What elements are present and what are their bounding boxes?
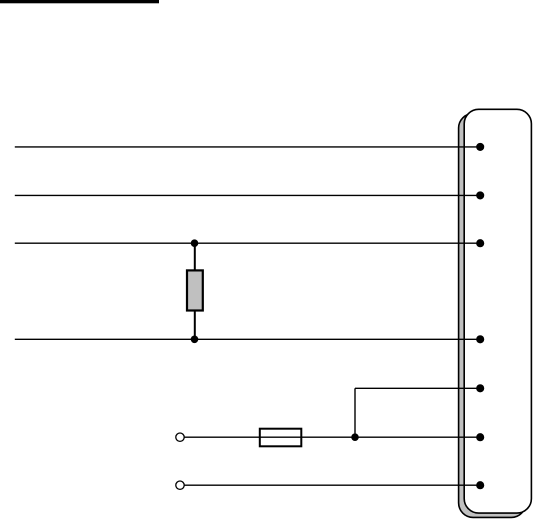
wire net1 xyxy=(15,146,480,148)
terminal T2 xyxy=(176,481,184,489)
wire net3 xyxy=(15,242,480,244)
junction node A xyxy=(191,239,199,247)
wire net2 xyxy=(15,194,480,196)
connector J1 body xyxy=(464,109,531,513)
resistor R1 xyxy=(187,270,203,310)
terminal T1 xyxy=(176,433,184,441)
junction node B xyxy=(191,336,199,344)
pin 7 xyxy=(476,481,484,489)
wire net5 xyxy=(355,387,480,389)
wire net4 xyxy=(15,338,480,340)
wire net7 xyxy=(184,484,480,486)
wire net5 vertical xyxy=(354,388,356,437)
resistor R1 lead bottom xyxy=(194,311,196,340)
pin 4 xyxy=(476,335,484,343)
pin 1 xyxy=(476,143,484,151)
redacted title bar xyxy=(0,0,159,3)
wire net6 xyxy=(184,436,480,438)
pin 3 xyxy=(476,239,484,247)
pin 2 xyxy=(476,191,484,199)
pin 5 xyxy=(476,384,484,392)
pin 6 xyxy=(476,433,484,441)
junction node C xyxy=(351,433,359,441)
connector J1 shadow body xyxy=(459,114,526,518)
resistor R1 lead top xyxy=(194,243,196,270)
fuse F1 xyxy=(260,429,302,447)
